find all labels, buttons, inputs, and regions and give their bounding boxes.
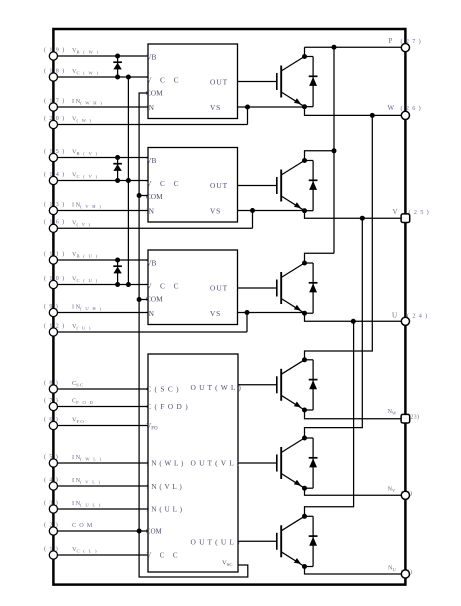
wire COM bus [139,93,248,577]
pin 17 IN(WH) terminal circle [49,103,57,111]
pin 13 IN(VH) label [44,201,102,209]
HVIC U3 labels [146,259,228,319]
svg-text:C O M: C O M [72,522,93,529]
svg-text:O U T ( U L ): O U T ( U L ) [191,538,241,547]
wire V phase output [305,211,406,219]
wire VS(V) [53,227,252,229]
svg-text:V C C: V C C [146,552,181,560]
junction P rail / P bus [332,45,337,50]
IGBT Q6 U-phase low-side with freewheel diode [238,514,318,569]
wire CSC [53,388,148,390]
pin 13 IN(VH) terminal circle [49,206,57,214]
wire NV line [305,488,406,495]
wire VB(W) [53,55,148,57]
svg-text:VB: VB [146,53,156,62]
svg-text:OUT: OUT [210,181,228,190]
IGBT Q4 W-phase low-side with freewheel diode [238,357,318,412]
pin 19 VB(W) terminal circle [49,52,57,60]
pin 3 IN(UL) terminal circle [49,505,57,513]
junction COM bus / pin 2 [137,529,142,534]
svg-text:O U T ( W L ): O U T ( W L ) [191,383,242,392]
pin 20 VS(W) label [44,115,93,123]
wire VS(U) output [238,312,305,314]
wire COM stub HVIC U3 [139,299,148,301]
wire VCC(V) [53,180,148,182]
wire VCC(U) [53,284,148,286]
LVIC U4 (low-side driver) box [148,354,238,572]
wire P rail [305,46,406,48]
junction COM bus / U2 [137,193,142,198]
svg-text:VS: VS [210,309,221,318]
pin 5 IN(WL) terminal circle [49,459,57,467]
wire Q1 collector riser [304,47,306,56]
pin 2 COM label [44,521,93,529]
pin 8 CSC terminal circle [49,385,57,393]
svg-text:VS: VS [210,207,221,216]
pin 10 VCC(U) terminal circle [49,280,57,288]
junction V phase / low-side feed [360,216,365,221]
pin 14 VCC(V) label [44,171,98,179]
pin 9 IN(UH) label [44,303,102,311]
pin 21 NU terminal [401,570,409,578]
svg-text:I N ( W L ): I N ( W L ) [146,460,184,468]
svg-text:VS: VS [210,103,221,112]
pin 3 IN(UL) label [44,499,102,507]
pin 22 NV label [388,486,413,497]
HVIC U1 labels [146,53,228,113]
HVIC U2 labels [146,156,228,216]
pin 22 NV terminal [401,491,409,499]
pin 12 VS(U) label [44,322,92,330]
svg-text:I N ( V L ): I N ( V L ) [146,483,182,491]
svg-text:O U T ( V L ): O U T ( V L ) [191,459,240,468]
wire NU line [305,566,406,574]
pin 26 W terminal [401,111,409,119]
pin 23 NW label [388,408,420,421]
pin 7 CFOD label [44,397,94,405]
junction VCC bus / VCC(U) [126,282,131,287]
wire Q3 collector feed [305,253,335,263]
pin 15 VB(V) terminal circle [49,153,57,161]
wire COM stub HVIC U2 [139,195,148,197]
pin 5 IN(WL) label [44,453,103,461]
svg-text:COM: COM [146,528,163,536]
wire VS(W) output [238,106,305,108]
pin 6 VFO label [44,416,85,424]
pin 25 V label [393,208,430,216]
pin 6 VFO terminal circle [49,421,57,429]
pin 17 IN(WH) label [44,97,103,105]
svg-text:COM: COM [146,89,163,98]
svg-text:( 2 5 ): ( 2 5 ) [409,209,430,216]
wire NW line [305,410,406,419]
pin 18 VCC(W) label [44,67,99,75]
wire VCC(W) [53,76,148,78]
pin 8 CSC label [44,379,84,387]
pin 10 VCC(U) label [44,275,98,283]
svg-text:P: P [389,37,393,45]
junction U phase / low-side feed [351,319,356,324]
wire VCC(L) [53,554,148,556]
pin 12 VS(U) terminal circle [49,328,57,336]
svg-text:C ( S C ): C ( S C ) [146,385,179,394]
svg-text:( 2 6 ): ( 2 6 ) [401,105,422,112]
pin 27 P terminal [401,44,409,52]
IGBT Q5 V-phase low-side with freewheel diode [238,436,318,491]
wire IN(VH) [53,210,148,212]
pin 16 VS(V) terminal circle [49,224,57,232]
HVIC U2 (V-phase high-side driver) box [148,148,238,223]
wire CFOD [53,406,148,408]
wire U phase output [305,313,406,322]
svg-text:V C C: V C C [146,179,182,188]
pin 18 VCC(W) terminal circle [49,73,57,81]
svg-text:V C C: V C C [146,76,182,85]
pin 24 U label [392,312,428,320]
pin 21 NU label [388,564,412,575]
svg-text:COM: COM [146,192,163,201]
junction VCC bus / VCC(W) [126,75,131,80]
pin 1 VCC(L) label [44,545,98,553]
svg-text:I N ( U L ): I N ( U L ) [146,506,182,514]
pin 25 V terminal [401,214,410,223]
junction W phase / low-side feed [370,113,375,118]
pin 9 IN(UH) terminal circle [49,308,57,316]
wire IN(VL) [53,485,148,487]
svg-text:IN: IN [146,309,154,318]
pin 23 NW terminal [401,414,410,423]
svg-text:( 2 4 ): ( 2 4 ) [407,313,428,320]
pin 11 VB(U) label [44,250,98,258]
wire VS(V) riser [252,211,254,229]
pin 14 VCC(V) terminal circle [49,176,57,184]
wire VB(U) [53,259,148,261]
wire VS(W) [53,124,247,126]
IGBT Q1 W-phase high-side with freewheel diode [238,54,318,109]
svg-text:COM: COM [146,295,163,304]
wire P bus down to U phase [333,151,335,254]
wire VS(V) output [238,210,305,212]
package outline border [53,29,405,585]
pin 4 IN(VL) label [44,476,101,484]
pin 16 VS(V) label [44,219,91,227]
wire COM [53,530,148,532]
bootstrap diode DU (VCC(U) to VB(U)) [113,258,122,288]
junction COM bus / U3 [137,297,142,302]
wire W phase output [305,107,406,116]
wire IN(WH) [53,106,148,108]
bootstrap diode DV (VCC(V) to VB(V)) [113,155,122,183]
wire VS(U) riser [246,313,248,333]
pin 2 COM terminal circle [49,527,57,535]
wire U low-side collector feed [305,321,354,516]
svg-text:OUT: OUT [210,284,228,293]
LVIC U4 labels [146,383,242,567]
HVIC U1 (W-phase high-side driver) box [148,44,238,119]
pin 15 VB(V) label [44,148,98,156]
IGBT Q2 V-phase high-side with freewheel diode [238,158,318,213]
pin 20 VS(W) terminal circle [49,120,57,128]
IGBT Q3 U-phase high-side with freewheel diode [238,261,318,316]
pin 4 IN(VL) terminal circle [49,482,57,490]
pin 11 VB(U) terminal circle [49,256,57,264]
wire IN(UH) [53,312,148,314]
wire IN(UL) [53,508,148,510]
junction VS(W) tap [245,105,250,110]
wire VCC common bus [127,77,129,285]
pin 24 U terminal [401,317,409,325]
svg-text:W: W [388,104,395,112]
pin 26 W label [388,104,422,112]
junction VS(V) tap [250,208,255,213]
HVIC U3 (U-phase high-side driver) box [148,250,238,325]
pin 7 CFOD terminal circle [49,402,57,410]
wire W low-side collector feed [305,115,373,360]
junction VS(U) tap [245,310,250,315]
wire P bus down to V phase [333,47,335,151]
svg-text:U: U [392,312,397,320]
junction VCC bus / VCC(V) [126,178,131,183]
wire VB(V) [53,157,148,159]
wire VFO [53,425,148,427]
wire IN(WL) [53,462,148,464]
svg-text:OUT: OUT [210,78,228,87]
junction P bus / V collector [332,148,337,153]
bootstrap diode DW (VCC(W) to VB(W)) [113,54,122,80]
pin 1 VCC(L) terminal circle [49,551,57,559]
wire Q2 collector feed [305,151,335,161]
svg-text:V: V [393,208,398,216]
wire VS(U) [53,331,247,333]
wire V low-side collector feed [305,218,363,438]
svg-text:C ( F O D ): C ( F O D ) [146,402,188,411]
svg-text:V C C: V C C [146,282,182,291]
pin 19 VB(W) label [44,46,99,54]
pin 27 P label [389,37,422,45]
wire VS(W) riser [247,107,249,125]
